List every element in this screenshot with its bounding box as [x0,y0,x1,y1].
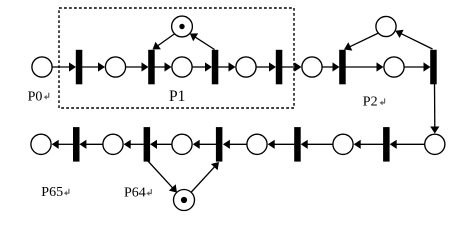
svg-text:P1: P1 [169,88,185,105]
svg-text:P0: P0 [28,90,43,105]
svg-text:P65: P65 [41,185,63,200]
svg-text:P2: P2 [363,94,378,109]
svg-text:P64: P64 [124,186,146,201]
